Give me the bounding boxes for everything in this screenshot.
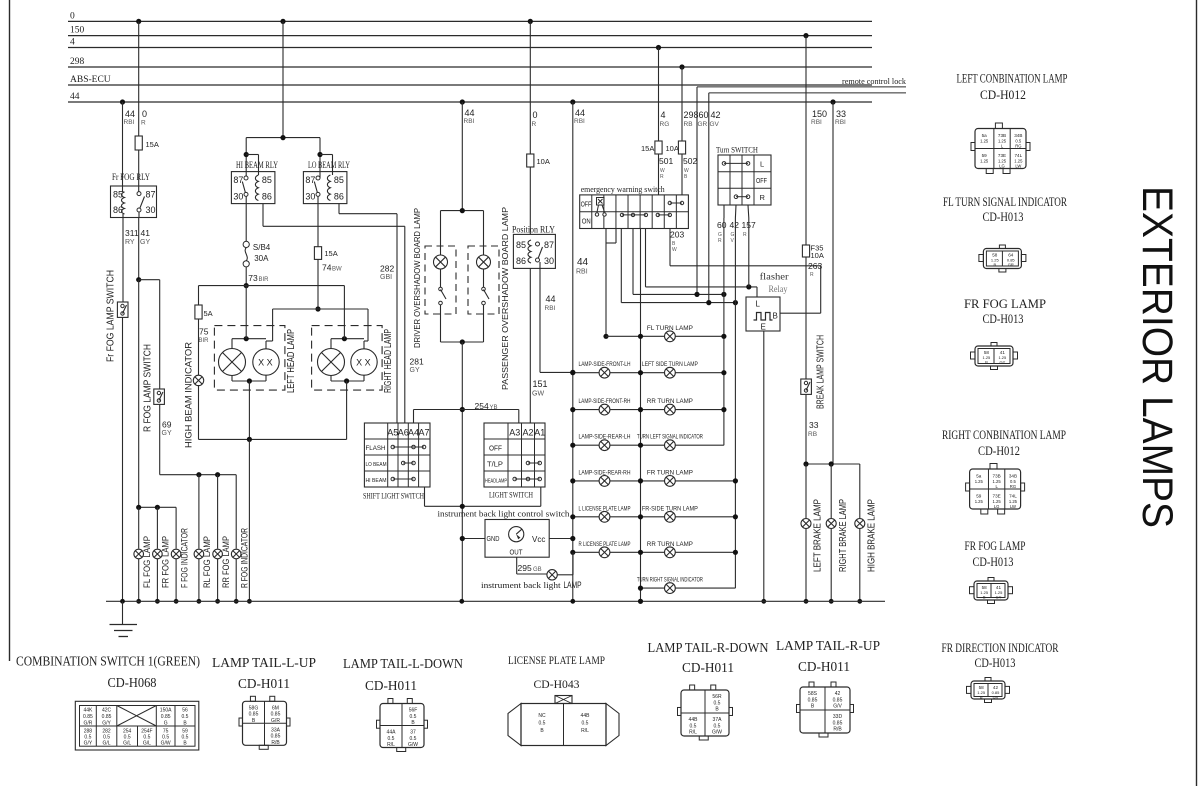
svg-text:HEADLAMP: HEADLAMP bbox=[485, 479, 507, 485]
lamp DRIVER OVERSHADOW BOARD LAMP bbox=[434, 255, 448, 269]
svg-text:GV: GV bbox=[710, 121, 720, 128]
wire emergency pin stub bbox=[615, 229, 617, 244]
node FL turn row start bbox=[603, 334, 608, 339]
lamp RIGHT HEAD LAMP bulb2 bbox=[351, 349, 377, 375]
svg-text:G/L: G/L bbox=[143, 741, 151, 747]
wire flasher E to ground bbox=[763, 331, 765, 601]
svg-text:ABS-ECU: ABS-ECU bbox=[70, 75, 111, 85]
svg-text:G/V: G/V bbox=[833, 704, 842, 710]
connector CD-H068 outer bbox=[75, 701, 199, 750]
wire bulb top bar bbox=[330, 339, 332, 349]
wire bottom ground bus bbox=[106, 600, 885, 602]
fuse 15A (low beam) bbox=[314, 247, 321, 260]
svg-text:R/L: R/L bbox=[387, 742, 395, 748]
svg-text:flasher: flasher bbox=[760, 272, 790, 283]
node row ground bbox=[638, 443, 643, 448]
svg-text:30A: 30A bbox=[254, 254, 269, 263]
svg-text:RBI: RBI bbox=[124, 119, 135, 126]
connector FR DIRECTION INDICATOR CD-H013 bbox=[971, 681, 1005, 699]
svg-text:EXTERIOR LAMPS: EXTERIOR LAMPS bbox=[1133, 186, 1181, 528]
wire turn pin 60 bbox=[723, 205, 725, 218]
svg-text:58S: 58S bbox=[808, 691, 818, 697]
wire shift table to light switch A1 bbox=[424, 487, 426, 506]
lamp RR TURN LAMP bbox=[665, 547, 676, 558]
node row ground bbox=[638, 586, 643, 591]
wire 4 RG dropper bbox=[658, 48, 660, 142]
relay flasher box bbox=[746, 297, 780, 331]
svg-text:73B: 73B bbox=[993, 474, 1001, 479]
contact Position RLY bbox=[536, 242, 540, 246]
wire R fog feed rail bbox=[160, 474, 237, 476]
svg-text:OFF: OFF bbox=[581, 200, 592, 209]
lamp FL TURN LAMP bbox=[665, 331, 676, 342]
wire RIGHT HEAD LAMP return lead bbox=[346, 381, 348, 439]
wire FR fog drop bbox=[156, 507, 158, 548]
svg-text:501: 501 bbox=[659, 156, 673, 166]
svg-text:Turn SWITCH: Turn SWITCH bbox=[716, 145, 758, 155]
node 42 riser join bbox=[706, 300, 711, 305]
node row right bbox=[721, 407, 726, 412]
svg-text:TURN LEFT SIGNAL INDICATOR: TURN LEFT SIGNAL INDICATOR bbox=[637, 435, 703, 441]
wire bulb top bar bbox=[231, 339, 233, 349]
svg-text:15A: 15A bbox=[324, 249, 337, 258]
emergency switch knob symbol bbox=[598, 199, 603, 204]
svg-text:R LICENSE PLATE LAMP: R LICENSE PLATE LAMP bbox=[579, 542, 631, 548]
wire 502 to emergency switch bbox=[681, 154, 683, 195]
wire branch to R fog switch bbox=[139, 279, 160, 281]
node row ground bbox=[638, 407, 643, 412]
svg-text:86: 86 bbox=[516, 256, 526, 266]
switch PASSENGER OVERSHADOW BOARD LAMP bbox=[483, 269, 485, 287]
wire 254 YB drop bbox=[461, 342, 463, 601]
grid divider 8 bbox=[675, 195, 677, 229]
svg-text:T/LP: T/LP bbox=[487, 462, 503, 469]
svg-text:LICENSE PLATE LAMP: LICENSE PLATE LAMP bbox=[508, 655, 605, 667]
lamp TURN RIGHT SIGNAL INDICATOR bbox=[665, 583, 676, 594]
svg-text:CD-H013: CD-H013 bbox=[983, 210, 1024, 224]
wire head lamp return rail bbox=[199, 438, 347, 440]
fusible link S/B4 30A bbox=[243, 241, 249, 247]
wire 298 RB dropper bbox=[681, 67, 683, 141]
svg-text:30: 30 bbox=[146, 205, 156, 215]
svg-text:30: 30 bbox=[305, 192, 315, 202]
svg-text:RBI: RBI bbox=[464, 118, 475, 125]
node HI feed fork bbox=[244, 152, 249, 157]
wire emergency pin to 42 row bbox=[620, 229, 622, 303]
svg-text:5a: 5a bbox=[976, 474, 982, 479]
wire relay feed horizontal bbox=[246, 137, 320, 139]
wire F fog feed rail bbox=[139, 506, 176, 508]
node RR fog tap bbox=[215, 472, 220, 477]
wire fuse to indicator bbox=[198, 319, 200, 375]
node row right bbox=[721, 334, 726, 339]
svg-text:44: 44 bbox=[577, 257, 589, 268]
bus line 298 bbox=[68, 66, 872, 68]
svg-text:G/L: G/L bbox=[123, 741, 131, 747]
wire drop to LO BEAM RLY bbox=[319, 138, 321, 178]
emergency contacts top row bbox=[668, 201, 671, 204]
svg-text:G: G bbox=[164, 721, 168, 727]
wire LO coil fork bbox=[320, 154, 333, 156]
svg-text:R: R bbox=[141, 120, 146, 127]
wire 60 bus bbox=[723, 218, 725, 445]
wire FL FOG LAMP to ground bus bbox=[138, 559, 140, 601]
svg-text:1.25: 1.25 bbox=[975, 499, 984, 504]
svg-text:42C: 42C bbox=[102, 708, 112, 714]
svg-text:74: 74 bbox=[322, 263, 332, 273]
svg-text:LIGHT SWITCH: LIGHT SWITCH bbox=[489, 490, 533, 500]
wire 33 RBI dropper bbox=[832, 102, 834, 464]
node bus4 tap x658 bbox=[656, 45, 661, 50]
svg-text:0.85: 0.85 bbox=[271, 712, 281, 718]
node instr line junction bbox=[460, 504, 465, 509]
contact Fr FOG RLY bbox=[137, 192, 141, 196]
bus line 44 bbox=[68, 101, 872, 103]
node row right bbox=[733, 478, 738, 483]
relay HI BEAM RLY box bbox=[231, 172, 275, 204]
svg-text:A3: A3 bbox=[509, 428, 520, 438]
svg-text:G/L: G/L bbox=[103, 741, 111, 747]
grid divider 4 bbox=[627, 195, 629, 229]
wire fuse to Position RLY bbox=[529, 167, 531, 234]
svg-text:150: 150 bbox=[812, 109, 827, 119]
svg-text:HI BEAM: HI BEAM bbox=[366, 478, 387, 484]
lamp F FOG INDICATOR bbox=[171, 549, 181, 559]
wire emergency pin to flasher L row bbox=[645, 229, 647, 287]
svg-text:FR FOG LAMP: FR FOG LAMP bbox=[965, 539, 1026, 553]
svg-text:RB: RB bbox=[684, 121, 693, 128]
wire 42 GV riser bbox=[708, 93, 710, 303]
wire 203 to flasher B bbox=[669, 229, 671, 266]
grid divider 1 bbox=[591, 195, 593, 229]
svg-text:Relay: Relay bbox=[769, 285, 788, 295]
svg-text:87: 87 bbox=[146, 190, 156, 200]
switch emergency warning switch box bbox=[580, 195, 689, 229]
lamp LEFT HEAD LAMP bulb1 bbox=[219, 349, 246, 376]
svg-text:HI BEAM RLY: HI BEAM RLY bbox=[236, 160, 278, 170]
svg-text:FR DIRECTION INDICATOR: FR DIRECTION INDICATOR bbox=[942, 641, 1059, 655]
svg-text:282: 282 bbox=[380, 264, 394, 274]
svg-text:5a: 5a bbox=[982, 133, 988, 138]
wire R FOG INDICATOR to ground bus bbox=[235, 559, 237, 601]
svg-text:0.85: 0.85 bbox=[161, 714, 171, 720]
svg-text:56R: 56R bbox=[712, 694, 722, 700]
svg-text:BIR: BIR bbox=[259, 277, 270, 283]
lamp LEFT SIDE TURN LAMP bbox=[665, 367, 676, 378]
svg-text:G/Y: G/Y bbox=[102, 721, 111, 727]
grid divider 7 bbox=[663, 195, 665, 229]
wire 44 RBI main feed bbox=[572, 102, 574, 601]
wire 0 R to fuse 10A position bbox=[529, 21, 531, 154]
cell divider bbox=[155, 706, 157, 747]
wire 42 bus bbox=[734, 218, 736, 588]
wire switch to bottom rail bbox=[483, 305, 485, 342]
svg-text:0.85: 0.85 bbox=[83, 714, 93, 720]
svg-text:CD-H011: CD-H011 bbox=[682, 660, 734, 675]
bus line ABS-ECU bbox=[68, 84, 872, 86]
wire indicator to head lamp return rail bbox=[198, 386, 200, 440]
svg-text:30: 30 bbox=[233, 192, 243, 202]
svg-text:CD-H011: CD-H011 bbox=[365, 678, 417, 693]
connector FR FOG LAMP CD-H013 (upper) bbox=[975, 346, 1013, 366]
node row ground bbox=[638, 370, 643, 375]
wire switch to bottom rail bbox=[440, 305, 442, 342]
svg-text:FR FOG LAMP: FR FOG LAMP bbox=[964, 297, 1046, 311]
svg-text:85: 85 bbox=[334, 175, 344, 185]
svg-text:75: 75 bbox=[199, 327, 209, 337]
wire lamp row RR TURN LAMP bbox=[573, 409, 724, 411]
node row ground bbox=[638, 334, 643, 339]
node 254YB junction bbox=[460, 407, 465, 412]
svg-text:RR TURN LAMP: RR TURN LAMP bbox=[647, 542, 693, 548]
svg-text:0.5: 0.5 bbox=[539, 721, 546, 727]
node brake rail mid bbox=[829, 461, 834, 466]
svg-text:CD-H011: CD-H011 bbox=[238, 676, 290, 691]
svg-text:85: 85 bbox=[262, 175, 272, 185]
wire Vcc to 44RBI bbox=[549, 538, 573, 540]
node top bar bbox=[244, 336, 249, 341]
svg-text:W: W bbox=[672, 247, 677, 253]
wire turn pin 157 bbox=[747, 205, 750, 218]
svg-text:LAMP-SIDE-FRONT-RH: LAMP-SIDE-FRONT-RH bbox=[579, 399, 631, 405]
assembly RIGHT HEAD LAMP dashed box bbox=[312, 326, 383, 391]
connector LICENSE PLATE LAMP bbox=[508, 704, 619, 746]
fuse 10A (position) bbox=[527, 154, 534, 167]
wire 254 YB rail bbox=[414, 409, 519, 411]
svg-text:LAMP TAIL-R-UP: LAMP TAIL-R-UP bbox=[776, 638, 880, 653]
svg-text:6M: 6M bbox=[272, 705, 279, 711]
crossed cell bbox=[117, 706, 157, 727]
svg-text:RBI: RBI bbox=[574, 118, 585, 125]
svg-text:0: 0 bbox=[70, 11, 75, 21]
svg-text:BREAK LAMP SWITCH: BREAK LAMP SWITCH bbox=[816, 335, 827, 409]
svg-text:A2: A2 bbox=[522, 428, 533, 438]
node 42 bus join bbox=[733, 300, 738, 305]
fuse 15A (emergency) bbox=[655, 141, 662, 154]
svg-text:R: R bbox=[718, 238, 722, 244]
svg-text:0.85: 0.85 bbox=[249, 712, 259, 718]
node LO feed fork bbox=[317, 152, 322, 157]
svg-text:GB: GB bbox=[533, 567, 542, 573]
wire HI 86 to shift switch A6 bbox=[262, 204, 264, 227]
wire lamp to 44RBI bus bbox=[557, 574, 573, 576]
svg-text:G/W: G/W bbox=[161, 741, 171, 747]
svg-text:LEFT CONBINATION LAMP: LEFT CONBINATION LAMP bbox=[957, 72, 1068, 86]
svg-text:1.25: 1.25 bbox=[975, 479, 984, 484]
wire bulb2 top lead bbox=[265, 341, 267, 349]
svg-text:LG: LG bbox=[999, 164, 1005, 169]
wire F fog feed down bbox=[138, 280, 140, 508]
relay Fr FOG RLY box bbox=[111, 186, 157, 218]
svg-text:GND: GND bbox=[487, 534, 500, 543]
wire GND to 254YB drop bbox=[462, 538, 485, 540]
wire bulb2 top lead bbox=[363, 341, 365, 349]
svg-text:RIGHT CONBINATION LAMP: RIGHT CONBINATION LAMP bbox=[942, 428, 1066, 442]
wire flasher L elbow bbox=[756, 287, 758, 297]
wire 501 to emergency switch bbox=[658, 154, 660, 195]
svg-text:44K: 44K bbox=[83, 708, 93, 714]
cell divider bbox=[174, 706, 176, 747]
node top bar bbox=[342, 336, 347, 341]
lamp R FOG INDICATOR bbox=[231, 549, 241, 559]
instrument back light controller box bbox=[485, 520, 549, 558]
node ground bus taps bbox=[120, 599, 125, 604]
assembly LEFT HEAD LAMP dashed box bbox=[214, 326, 285, 391]
svg-text:0.5: 0.5 bbox=[690, 723, 697, 729]
node 60 riser join bbox=[694, 292, 699, 297]
wire LO 30 to fuse bbox=[317, 196, 319, 246]
node bus44 tap x462 bbox=[460, 99, 465, 104]
connector CD-H068 inner bbox=[80, 706, 196, 747]
node flasher L join bbox=[746, 284, 751, 289]
svg-text:DRIVER OVERSHADOW BOARD LAMP: DRIVER OVERSHADOW BOARD LAMP bbox=[412, 208, 422, 348]
svg-text:Fr FOG LAMP SWITCH: Fr FOG LAMP SWITCH bbox=[106, 270, 117, 362]
svg-text:LEFT BRAKE LAMP: LEFT BRAKE LAMP bbox=[813, 499, 824, 572]
lamp FR TURN LAMP bbox=[665, 476, 676, 487]
lamp LAMP-SIDE-REAR-RH bbox=[599, 476, 610, 487]
node row ground bbox=[638, 550, 643, 555]
svg-text:B: B bbox=[985, 360, 988, 365]
svg-text:56F: 56F bbox=[409, 708, 418, 714]
svg-text:GY: GY bbox=[410, 367, 420, 374]
relay LO BEAM RLY box bbox=[303, 172, 347, 204]
svg-text:G/W: G/W bbox=[408, 742, 418, 748]
wire RIGHT HEAD LAMP high beam lead bbox=[343, 286, 345, 339]
svg-text:RY: RY bbox=[125, 239, 135, 246]
lamp LEFT HEAD LAMP bulb2 bbox=[253, 349, 279, 375]
svg-text:0.85: 0.85 bbox=[102, 714, 112, 720]
svg-text:SHIFT LIGHT SWITCH: SHIFT LIGHT SWITCH bbox=[363, 491, 424, 501]
node bus0 tap x282 bbox=[280, 19, 285, 24]
svg-text:B: B bbox=[980, 695, 983, 700]
wire remote control lock B bbox=[709, 92, 906, 94]
node flasher E ground bbox=[761, 599, 766, 604]
svg-text:RBI: RBI bbox=[811, 119, 822, 126]
wire HI 30 to S/B4 bbox=[245, 196, 247, 241]
grid divider 2 bbox=[603, 195, 605, 229]
bus line 0 bbox=[68, 20, 872, 22]
svg-text:0.5: 0.5 bbox=[182, 714, 189, 720]
wire 44 RBI to Fr FOG RLY bbox=[122, 102, 124, 186]
svg-text:150: 150 bbox=[70, 26, 85, 36]
svg-text:0: 0 bbox=[533, 110, 538, 120]
lamp TURN LEFT SIGNAL INDICATOR bbox=[665, 440, 676, 451]
svg-text:Fr FOG RLY: Fr FOG RLY bbox=[112, 172, 150, 182]
svg-text:44: 44 bbox=[546, 294, 556, 304]
wire 254YB to shift A4 bbox=[413, 410, 415, 424]
node RL fog tap bbox=[196, 472, 201, 477]
svg-text:TURN RIGHT SIGNAL INDICATOR: TURN RIGHT SIGNAL INDICATOR bbox=[637, 578, 703, 584]
wire head lamp relay feed riser bbox=[282, 21, 284, 137]
svg-text:74L: 74L bbox=[1009, 494, 1017, 499]
lamp HIGH BRAKE LAMP bbox=[855, 519, 865, 529]
lamp RR TURN LAMP bbox=[665, 404, 676, 415]
svg-text:instrument back light control: instrument back light control switch bbox=[438, 509, 571, 519]
svg-text:RBI: RBI bbox=[835, 119, 846, 126]
svg-text:85: 85 bbox=[516, 240, 526, 250]
svg-text:LAMP TAIL-L-UP: LAMP TAIL-L-UP bbox=[212, 655, 316, 670]
svg-text:OUT: OUT bbox=[510, 548, 523, 557]
svg-text:44: 44 bbox=[70, 92, 80, 102]
svg-text:59: 59 bbox=[982, 153, 988, 158]
wire overshadow bottom rail bbox=[441, 341, 484, 343]
svg-text:42: 42 bbox=[730, 220, 740, 230]
svg-text:0.5: 0.5 bbox=[582, 721, 589, 727]
svg-text:LAMP: LAMP bbox=[564, 580, 582, 590]
wire R ind drop bbox=[235, 475, 237, 549]
lamp LAMP-SIDE-REAR-LH bbox=[599, 440, 610, 451]
node brake rail left bbox=[803, 461, 808, 466]
svg-text:B: B bbox=[773, 312, 778, 321]
lamp FL FOG LAMP bbox=[134, 549, 144, 559]
node ground bus at 640 bbox=[638, 599, 643, 604]
ground symbol bbox=[122, 601, 124, 624]
wire lamp row TURN RIGHT SIGNAL INDICATOR bbox=[641, 587, 736, 589]
wire 60 GR riser bbox=[696, 87, 698, 295]
cell divider bbox=[137, 726, 139, 746]
node bus0 tap x138 bbox=[136, 19, 141, 24]
svg-text:S/B4: S/B4 bbox=[253, 243, 271, 252]
svg-text:HIGH BRAKE LAMP: HIGH BRAKE LAMP bbox=[866, 499, 877, 572]
svg-text:L: L bbox=[760, 160, 764, 169]
svg-text:58G: 58G bbox=[249, 705, 259, 711]
connector LAMP TAIL-R-DOWN bbox=[681, 690, 729, 736]
svg-text:LO BEAM RLY: LO BEAM RLY bbox=[308, 160, 350, 170]
wire 0 R to fuse 15A bbox=[138, 21, 140, 136]
svg-text:R/B: R/B bbox=[833, 727, 842, 733]
node FR fog tap bbox=[155, 505, 160, 510]
svg-text:LAMP-SIDE-REAR-LH: LAMP-SIDE-REAR-LH bbox=[579, 435, 631, 441]
wire drop to HI BEAM RLY bbox=[245, 138, 247, 178]
svg-text:0.85: 0.85 bbox=[833, 697, 843, 703]
wire F ind drop bbox=[175, 507, 177, 548]
svg-text:B: B bbox=[983, 595, 986, 600]
lamp L LICENSE PLATE LAMP bbox=[599, 511, 610, 522]
svg-text:G/R: G/R bbox=[83, 721, 92, 727]
svg-text:LW: LW bbox=[1010, 504, 1016, 509]
svg-text:CD-H011: CD-H011 bbox=[798, 659, 850, 674]
svg-text:R FOG LAMP SWITCH: R FOG LAMP SWITCH bbox=[143, 344, 154, 432]
coil HI BEAM RLY bbox=[255, 175, 258, 201]
node low beam rail bbox=[315, 306, 320, 311]
svg-text:FL TURN LAMP: FL TURN LAMP bbox=[647, 326, 693, 332]
svg-text:R FOG INDICATOR: R FOG INDICATOR bbox=[239, 528, 249, 588]
gauge symbol bbox=[509, 527, 524, 542]
bus line 4 bbox=[68, 47, 872, 49]
svg-text:FLASH: FLASH bbox=[366, 445, 386, 452]
svg-text:R: R bbox=[660, 174, 664, 180]
node FL fog tap bbox=[136, 505, 141, 510]
svg-text:LG: LG bbox=[994, 504, 1000, 509]
coil LO BEAM RLY bbox=[327, 175, 330, 201]
cell divider bbox=[116, 706, 118, 747]
svg-text:44B: 44B bbox=[689, 717, 699, 723]
lamp LAMP-SIDE-FRONT-RH bbox=[599, 404, 610, 415]
node overshadow bottom bbox=[460, 339, 465, 344]
grid divider 3 bbox=[615, 195, 617, 229]
switch SHIFT LIGHT SWITCH box bbox=[364, 423, 430, 487]
svg-text:295: 295 bbox=[518, 563, 532, 573]
svg-text:0.85: 0.85 bbox=[271, 734, 281, 740]
switch DRIVER OVERSHADOW BOARD LAMP bbox=[440, 269, 442, 287]
svg-text:G/R: G/R bbox=[271, 718, 280, 724]
wire bulb bottom bar bbox=[231, 376, 233, 382]
wire RR fog drop bbox=[217, 475, 219, 549]
svg-text:86: 86 bbox=[262, 192, 272, 202]
wire fuse to Fr FOG RLY 87 bbox=[138, 150, 140, 194]
node 41 GY branch bbox=[136, 277, 141, 282]
svg-text:NC: NC bbox=[538, 713, 546, 719]
